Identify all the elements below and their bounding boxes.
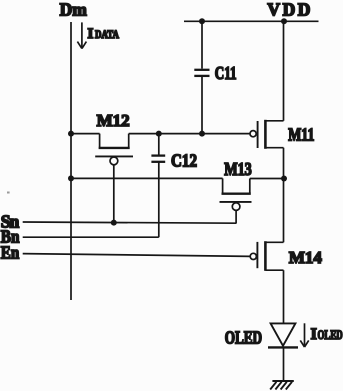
current arrow I_OLED: [300, 323, 342, 347]
wire second bus Dm to M13 source: [71, 177, 223, 179]
ground: [270, 381, 294, 390]
node En label: [1, 243, 20, 263]
capacitor C11: [194, 63, 236, 83]
svg-text:OLED: OLED: [318, 328, 343, 342]
svg-text:I: I: [88, 26, 94, 42]
wire Bn line: [23, 236, 159, 238]
svg-text:I: I: [311, 326, 317, 343]
wire M12 gate to Sn: [113, 165, 115, 223]
wire Dm to M12 source: [71, 133, 100, 135]
svg-text:DATA: DATA: [95, 29, 120, 41]
wire M13 drain to node: [250, 178, 284, 180]
wire M13 gate to Sn: [235, 210, 237, 223]
stray scan speck: [7, 192, 10, 194]
wire VDD rail: [184, 20, 319, 22]
junction dot Sn/M12 gate: [111, 220, 117, 226]
wire Dm data line: [70, 22, 72, 300]
svg-text:M14: M14: [289, 248, 323, 267]
wire C11 bottom to gate bus: [201, 77, 203, 134]
wire Sn line: [23, 222, 237, 223]
junction dot Dm/M12 source: [68, 131, 74, 137]
node Bn label: [1, 227, 20, 247]
transistor M12: [95, 111, 133, 165]
junction dot Dm/second bus: [68, 175, 74, 181]
transistor M13: [220, 159, 252, 210]
node VDD label: [267, 0, 310, 19]
junction dot VDD/C11: [199, 18, 205, 24]
capacitor C12: [151, 151, 197, 171]
svg-text:M11: M11: [288, 125, 314, 145]
current arrow I_DATA: [77, 22, 119, 48]
node Dm label: [60, 0, 88, 19]
junction dot bus/C11: [199, 131, 205, 137]
junction dot VDD/M11: [281, 18, 287, 24]
svg-text:C12: C12: [171, 151, 197, 171]
wire OLED cathode to ground: [283, 347, 285, 380]
wire VDD to M11 source: [283, 21, 285, 121]
svg-text:M13: M13: [224, 159, 252, 179]
wire En line: [23, 254, 251, 257]
wire node to M14 source: [283, 179, 285, 243]
wire M11 drain down: [283, 148, 285, 179]
wire M14 drain to OLED: [283, 270, 285, 323]
transistor M11: [250, 120, 314, 149]
diode OLED: [225, 323, 298, 347]
junction dot bus/C12: [156, 131, 162, 137]
wire C12 bottom to Bn: [158, 162, 160, 237]
wire gate bus M12 drain to M11 gate: [129, 133, 250, 135]
junction dot M11/M13/M14: [281, 176, 287, 182]
node Sn label: [1, 211, 20, 231]
transistor M14: [250, 241, 322, 271]
svg-text:C11: C11: [215, 63, 237, 83]
svg-text:M12: M12: [97, 111, 130, 130]
wire bus to C12 top: [158, 134, 160, 155]
wire VDD to C11 top: [201, 21, 203, 68]
svg-text:En: En: [1, 243, 20, 263]
svg-text:VDD: VDD: [267, 0, 310, 19]
svg-text:OLED: OLED: [225, 327, 262, 347]
svg-text:Dm: Dm: [60, 0, 88, 19]
